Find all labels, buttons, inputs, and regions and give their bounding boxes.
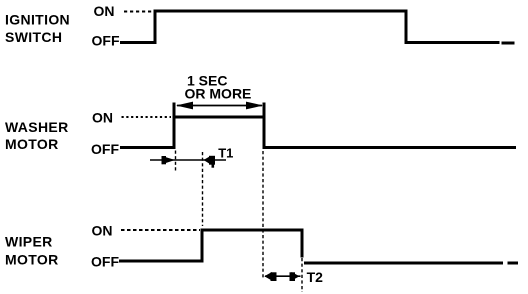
dimension arrow 1 SEC OR MORE — [176, 102, 263, 110]
dashed construction line at washer rising edge — [175, 151, 177, 173]
T2 dimension arrow — [264, 272, 300, 281]
svg-text:ON: ON — [94, 3, 115, 19]
washer ON dotted reference line — [122, 116, 172, 118]
T1 dimension arrows — [150, 156, 226, 168]
svg-text:IGNITION: IGNITION — [5, 12, 70, 28]
svg-text:OFF: OFF — [91, 141, 119, 157]
label WIPER MOTOR — [5, 234, 59, 268]
svg-text:SWITCH: SWITCH — [5, 29, 62, 45]
ignition OFF tail after scan gap — [502, 42, 515, 45]
text 1 SEC OR MORE — [185, 73, 252, 102]
wiper motor ON segment — [201, 229, 304, 232]
svg-text:WASHER: WASHER — [5, 119, 69, 135]
svg-text:WIPER: WIPER — [5, 234, 53, 250]
svg-text:OR MORE: OR MORE — [185, 85, 252, 101]
wiper motor waveform off tail — [304, 262, 503, 265]
dashed construction line from T1 to wiper rising edge — [202, 152, 204, 226]
svg-text:OFF: OFF — [91, 253, 119, 269]
dashed construction line at washer falling edge — [262, 151, 264, 280]
ignition ON dotted reference line — [124, 11, 154, 13]
washer motor ON segment — [173, 116, 266, 119]
washer motor waveform off tail — [264, 146, 516, 149]
svg-text:T1: T1 — [218, 146, 233, 161]
wiper OFF tail after scan gap — [508, 262, 519, 265]
svg-text:MOTOR: MOTOR — [5, 252, 59, 268]
svg-text:MOTOR: MOTOR — [5, 136, 59, 152]
ignition switch waveform — [120, 11, 500, 43]
washer motor rising edge (extended to dimension line) — [173, 103, 176, 150]
wiper ON dotted reference line — [121, 229, 200, 231]
label WASHER MOTOR — [5, 119, 69, 152]
washer motor falling edge (extended to dimension line) — [263, 103, 266, 150]
svg-text:OFF: OFF — [92, 33, 120, 49]
wiper motor waveform off lead — [119, 260, 204, 263]
dashed construction line below wiper falling edge — [301, 258, 303, 292]
svg-text:ON: ON — [92, 110, 113, 126]
washer motor waveform off lead — [120, 146, 174, 149]
wiper motor falling edge — [301, 229, 304, 258]
svg-text:T2: T2 — [307, 269, 324, 285]
svg-text:ON: ON — [92, 223, 113, 239]
wiper motor rising edge — [201, 229, 204, 263]
label IGNITION SWITCH — [5, 12, 70, 46]
